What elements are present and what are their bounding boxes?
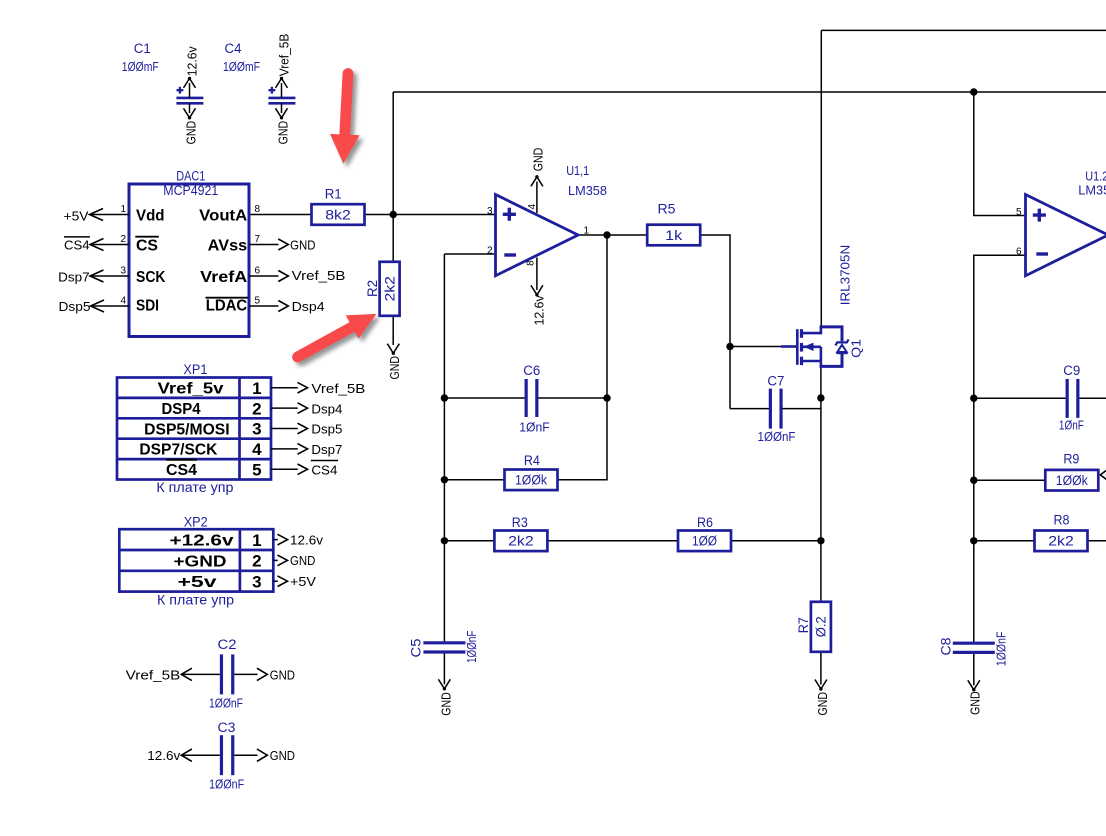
resistor R2 bbox=[380, 262, 400, 316]
resistor R1 bbox=[312, 204, 365, 225]
svg-text:SDI: SDI bbox=[136, 297, 159, 314]
svg-text:3: 3 bbox=[487, 206, 493, 217]
svg-text:XP2: XP2 bbox=[184, 515, 208, 530]
svg-text:GND: GND bbox=[270, 667, 295, 682]
wire R9 row bbox=[974, 479, 1046, 481]
svg-text:1ØØk: 1ØØk bbox=[515, 472, 548, 488]
svg-text:1: 1 bbox=[252, 379, 261, 398]
svg-text:DAC1: DAC1 bbox=[176, 169, 205, 184]
svg-text:2: 2 bbox=[487, 245, 493, 256]
connector XP2 bbox=[119, 529, 273, 591]
svg-text:AVss: AVss bbox=[208, 237, 248, 254]
wire DAC pin8 to R1 bbox=[249, 214, 312, 216]
wire R1-node rail (y=92) to right edge bbox=[393, 91, 1106, 93]
ground arrow under C5 bbox=[438, 679, 450, 689]
svg-text:12.6v: 12.6v bbox=[147, 748, 181, 763]
wire C6 row right segment bbox=[538, 397, 607, 399]
wire top rail from drain (y=30) to right edge bbox=[821, 29, 1106, 31]
DAC pin 2 wire CS4 bbox=[92, 244, 129, 246]
svg-text:2: 2 bbox=[252, 552, 261, 571]
svg-text:GND: GND bbox=[968, 691, 983, 715]
svg-text:R8: R8 bbox=[1054, 512, 1070, 527]
plus mark of C4 bbox=[269, 87, 276, 94]
svg-text:12.6v: 12.6v bbox=[290, 532, 324, 547]
svg-text:CS4: CS4 bbox=[166, 462, 197, 479]
svg-text:DSP4: DSP4 bbox=[162, 401, 201, 418]
svg-text:2k2: 2k2 bbox=[1048, 533, 1074, 549]
svg-text:8: 8 bbox=[525, 260, 536, 266]
svg-text:C7: C7 bbox=[767, 374, 784, 389]
svg-text:К плате упр: К плате упр bbox=[156, 480, 233, 495]
svg-text:VoutA: VoutA bbox=[199, 208, 247, 225]
svg-text:LDAC: LDAC bbox=[206, 297, 248, 314]
node gate junction bbox=[726, 343, 733, 350]
svg-text:GND: GND bbox=[270, 748, 295, 763]
capacitor C5 bbox=[423, 641, 465, 644]
red annotation arrow 2 (points to R2) bbox=[298, 314, 377, 357]
wire R4 row right segment + up to output node bbox=[558, 235, 608, 480]
wire R6 to x=821 bbox=[730, 540, 821, 542]
svg-text:GND: GND bbox=[275, 121, 290, 145]
red annotation arrow 1 (points to R1) bbox=[330, 74, 360, 164]
svg-text:Dsp5: Dsp5 bbox=[311, 422, 342, 437]
connector XP1 bbox=[117, 378, 271, 480]
svg-text:8: 8 bbox=[255, 204, 261, 215]
svg-text:1ØØnF: 1ØØnF bbox=[464, 630, 479, 663]
svg-text:5: 5 bbox=[1016, 207, 1022, 218]
svg-text:U1.2: U1.2 bbox=[1085, 169, 1106, 184]
svg-text:GND: GND bbox=[183, 121, 198, 145]
svg-text:C6: C6 bbox=[523, 363, 540, 378]
svg-text:1ØØk: 1ØØk bbox=[1056, 472, 1089, 488]
node R3 left junction bbox=[441, 537, 448, 544]
wire R3 row left segment bbox=[444, 540, 494, 542]
svg-text:1ØnF: 1ØnF bbox=[519, 419, 550, 434]
wire U1.2 pin6 down to C9 node bbox=[974, 255, 1026, 398]
wire C5 to GND arrow bbox=[443, 654, 445, 685]
node op-amp output junction bbox=[603, 231, 610, 238]
capacitor C6 bbox=[525, 379, 528, 417]
capacitor C8 bbox=[953, 642, 995, 645]
svg-text:4: 4 bbox=[120, 296, 126, 307]
svg-text:C1: C1 bbox=[134, 41, 151, 56]
power arrow 12.6v below op-amp bbox=[531, 285, 543, 295]
wire C9 row left bbox=[974, 397, 1066, 399]
svg-text:DSP5/MOSI: DSP5/MOSI bbox=[144, 421, 230, 438]
svg-text:1: 1 bbox=[120, 204, 126, 215]
svg-text:5: 5 bbox=[255, 296, 261, 307]
node C6 right junction bbox=[603, 394, 610, 401]
wire R4 row left segment bbox=[444, 479, 504, 481]
svg-text:3: 3 bbox=[120, 266, 126, 277]
ground arrow under R7 bbox=[815, 680, 827, 690]
svg-text:R3: R3 bbox=[512, 515, 528, 530]
wire R8 row right to edge bbox=[1087, 540, 1106, 542]
wire inverting node x=444 down bbox=[443, 254, 445, 642]
wire R8 row left bbox=[974, 540, 1035, 542]
transistor Q1 IRL3705N bbox=[781, 327, 849, 368]
IC DAC1 MCP4921 bbox=[129, 184, 249, 337]
svg-text:6: 6 bbox=[1016, 246, 1022, 257]
svg-text:+5V: +5V bbox=[290, 574, 316, 589]
svg-text:GND: GND bbox=[815, 692, 830, 716]
node R1/pin3 junction bbox=[390, 211, 397, 218]
wire vertical drain x=821 from top rail to MOSFET bbox=[820, 30, 822, 327]
svg-text:GND: GND bbox=[290, 238, 315, 253]
node R4 left junction bbox=[441, 476, 448, 483]
svg-text:1ØØmF: 1ØØmF bbox=[122, 59, 159, 74]
svg-text:2: 2 bbox=[252, 399, 261, 418]
svg-text:C3: C3 bbox=[218, 720, 236, 735]
op-amp U1.1 LM358 bbox=[496, 195, 579, 276]
ground arrow under R2 bbox=[387, 344, 399, 354]
svg-text:2k2: 2k2 bbox=[508, 533, 534, 549]
svg-text:Vref_5B: Vref_5B bbox=[126, 667, 181, 682]
wire C7 row right segment bbox=[782, 408, 821, 410]
svg-text:LM358: LM358 bbox=[568, 183, 607, 198]
svg-text:XP1: XP1 bbox=[183, 362, 207, 377]
svg-text:Vref_5B: Vref_5B bbox=[292, 268, 346, 283]
wire op-amp output to R5 bbox=[578, 234, 647, 236]
resistor R5 bbox=[647, 225, 700, 246]
capacitor C2 bbox=[220, 654, 223, 694]
wire R5 to gate column bbox=[700, 235, 730, 347]
plus mark of C1 bbox=[177, 87, 184, 94]
wire gate node down to C7 row bbox=[729, 347, 731, 409]
wire op-amp pin4 up to GND arrow bbox=[536, 182, 538, 214]
svg-text:C5: C5 bbox=[409, 639, 424, 658]
svg-text:Dsp4: Dsp4 bbox=[311, 401, 342, 416]
svg-text:LM358: LM358 bbox=[1078, 183, 1106, 198]
svg-text:Dsp4: Dsp4 bbox=[292, 299, 325, 314]
node C9 junction bbox=[970, 395, 977, 402]
DAC pin 7 wire GND bbox=[249, 244, 279, 246]
wire C9 node to R9 node bbox=[973, 398, 975, 480]
svg-text:Q1: Q1 bbox=[849, 339, 864, 358]
capacitor C4 (polarized) bbox=[268, 97, 295, 100]
wire R8 node down to C8 bbox=[973, 541, 975, 642]
svg-text:6: 6 bbox=[255, 266, 261, 277]
resistor R3 bbox=[494, 531, 547, 552]
svg-text:GND: GND bbox=[290, 553, 315, 568]
svg-text:Vref_5B: Vref_5B bbox=[311, 381, 365, 396]
svg-text:5: 5 bbox=[252, 461, 261, 480]
svg-text:Dsp5: Dsp5 bbox=[59, 299, 91, 314]
wire C7 row left segment bbox=[730, 408, 769, 410]
svg-text:CS: CS bbox=[136, 237, 158, 254]
wire op-amp pin8 down to 12.6v arrow bbox=[536, 258, 538, 291]
svg-text:C2: C2 bbox=[218, 637, 237, 652]
resistor R4 bbox=[505, 470, 558, 491]
svg-text:+12.6v: +12.6v bbox=[170, 533, 234, 550]
DAC pin 3 wire Dsp7 bbox=[92, 275, 129, 277]
svg-text:1ØØnF: 1ØØnF bbox=[994, 632, 1009, 667]
DAC pin 1 wire +5V bbox=[92, 214, 129, 216]
svg-text:R7: R7 bbox=[796, 617, 811, 633]
svg-text:+GND: +GND bbox=[174, 553, 227, 570]
wire gate node to MOSFET gate bbox=[730, 346, 781, 348]
node rail/U1.2 pin5 junction bbox=[970, 88, 977, 95]
wire C8 to GND arrow bbox=[973, 654, 975, 685]
wire C6 row left segment bbox=[444, 397, 524, 399]
svg-text:Vref_5B: Vref_5B bbox=[276, 34, 291, 77]
svg-text:Vdd: Vdd bbox=[136, 208, 165, 225]
svg-text:12.6v: 12.6v bbox=[532, 295, 547, 325]
wire R7 to GND arrow bbox=[820, 652, 822, 685]
wire C9 row right to edge bbox=[1079, 397, 1106, 399]
svg-text:4: 4 bbox=[252, 440, 262, 459]
svg-text:1: 1 bbox=[252, 531, 261, 550]
wire R2 to GND arrow bbox=[392, 316, 394, 345]
capacitor C9 bbox=[1066, 379, 1069, 418]
resistor R7 bbox=[811, 602, 831, 652]
svg-text:Vref_5v: Vref_5v bbox=[158, 381, 224, 398]
svg-text:GND: GND bbox=[530, 148, 545, 172]
svg-text:U1,1: U1,1 bbox=[566, 163, 589, 178]
wire MOSFET source down to R7 bbox=[820, 367, 822, 603]
svg-text:1ØnF: 1ØnF bbox=[1059, 418, 1084, 433]
svg-text:R1: R1 bbox=[325, 187, 342, 202]
svg-text:1ØØ: 1ØØ bbox=[692, 533, 717, 549]
body diode of Q1 bbox=[835, 339, 848, 345]
node R8/C8 junction bbox=[970, 537, 977, 544]
svg-text:R9: R9 bbox=[1063, 451, 1079, 466]
capacitor C7 bbox=[769, 389, 772, 429]
resistor R8 bbox=[1035, 531, 1088, 552]
svg-text:1ØØmF: 1ØØmF bbox=[223, 59, 260, 74]
svg-text:1: 1 bbox=[584, 225, 590, 236]
op-amp U1.2 LM358 bbox=[1026, 195, 1106, 276]
node R6/R7 junction bbox=[817, 537, 824, 544]
svg-text:Dsp7: Dsp7 bbox=[58, 270, 90, 285]
resistor R6 bbox=[678, 531, 731, 552]
node R9 junction bbox=[970, 477, 977, 484]
wire R9 node to R8 node bbox=[973, 480, 975, 541]
ground arrow under C8 bbox=[968, 680, 980, 690]
svg-text:К плате упр: К плате упр bbox=[157, 592, 234, 607]
svg-text:R2: R2 bbox=[365, 280, 380, 297]
wire R1 to op-amp pin3 bbox=[365, 214, 496, 216]
svg-text:12.6v: 12.6v bbox=[184, 46, 199, 76]
svg-text:1k: 1k bbox=[665, 227, 683, 243]
svg-text:Ø.2: Ø.2 bbox=[813, 616, 829, 637]
svg-text:IRL3705N: IRL3705N bbox=[837, 245, 852, 306]
svg-text:1ØØnF: 1ØØnF bbox=[209, 696, 243, 711]
svg-text:8k2: 8k2 bbox=[325, 206, 351, 222]
capacitor C1 (polarized) bbox=[176, 97, 203, 100]
svg-text:DSP7/SCK: DSP7/SCK bbox=[139, 442, 217, 459]
resistor R9 bbox=[1045, 470, 1098, 491]
svg-text:2: 2 bbox=[120, 234, 126, 245]
svg-text:SCK: SCK bbox=[136, 269, 166, 286]
wire R3 to R6 bbox=[547, 540, 679, 542]
svg-text:CS4: CS4 bbox=[64, 238, 90, 253]
svg-text:R5: R5 bbox=[658, 202, 676, 217]
svg-text:Dsp7: Dsp7 bbox=[311, 442, 342, 457]
node source junction bbox=[817, 394, 824, 401]
wire vertical x=393 from rail down to R1 node bbox=[392, 92, 394, 215]
svg-text:C9: C9 bbox=[1063, 363, 1080, 378]
svg-text:2k2: 2k2 bbox=[381, 276, 397, 302]
wire op-amp pin2 left bbox=[444, 253, 495, 255]
svg-text:C4: C4 bbox=[225, 41, 242, 56]
svg-text:7: 7 bbox=[255, 234, 261, 245]
svg-text:C8: C8 bbox=[938, 638, 953, 656]
DAC pin 6 wire Vref_5B bbox=[249, 275, 279, 277]
svg-text:MCP4921: MCP4921 bbox=[163, 183, 218, 198]
svg-text:CS4: CS4 bbox=[311, 463, 337, 478]
svg-text:R6: R6 bbox=[697, 515, 713, 530]
svg-text:3: 3 bbox=[252, 420, 261, 439]
svg-text:+5V: +5V bbox=[64, 208, 89, 223]
off-page arrow right of R9 bbox=[1100, 470, 1106, 480]
svg-text:R4: R4 bbox=[524, 453, 540, 468]
svg-text:4: 4 bbox=[527, 204, 538, 210]
svg-text:GND: GND bbox=[387, 356, 402, 380]
power arrow GND above op-amp bbox=[531, 177, 543, 187]
capacitor C3 bbox=[220, 735, 223, 775]
DAC pin 5 wire Dsp4 bbox=[249, 305, 279, 307]
node C6 left junction bbox=[441, 394, 448, 401]
svg-text:3: 3 bbox=[252, 572, 261, 591]
svg-text:+5v: +5v bbox=[178, 574, 217, 591]
wire U1.2 pin5 up to rail bbox=[974, 92, 1026, 216]
svg-text:VrefA: VrefA bbox=[200, 269, 248, 286]
svg-text:1ØØnF: 1ØØnF bbox=[758, 429, 796, 444]
svg-text:GND: GND bbox=[438, 692, 453, 716]
wire R1 node down to R2 bbox=[392, 215, 394, 263]
DAC pin 4 wire Dsp5 bbox=[92, 305, 129, 307]
svg-text:1ØØnF: 1ØØnF bbox=[209, 776, 244, 791]
